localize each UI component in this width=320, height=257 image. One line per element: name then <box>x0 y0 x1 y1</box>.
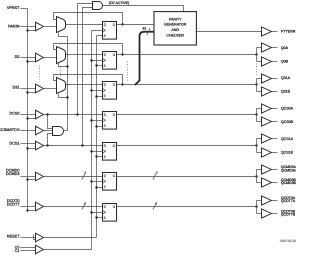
net label VPRST <box>7 6 20 10</box>
svg-text:D0: D0 <box>15 55 20 59</box>
net label DCS0 <box>9 112 19 116</box>
node output split Q31 <box>255 83 257 85</box>
wire FF5 Q to QCS1 outputs <box>117 145 257 147</box>
net label DCDT0 <box>7 199 20 203</box>
node VPRST tap DCS0 <box>26 117 28 119</box>
wire Q0B stub <box>257 61 262 63</box>
wire QCS0A stub <box>257 108 262 110</box>
bus width label 4 (QCMD out) <box>156 171 158 175</box>
node output split QCS0 <box>255 113 257 115</box>
wire RESET input <box>21 237 36 239</box>
wire reset rail vertical <box>96 36 98 238</box>
wire VPRST tap DCS0 <box>28 118 36 120</box>
wire FF6 Q to QCMD outputs <box>117 176 257 178</box>
bus width label 8 (QCDT out) <box>155 201 157 205</box>
node DCS1 junction <box>46 144 48 146</box>
svg-text:C1: C1 <box>15 249 20 253</box>
svg-text:D31: D31 <box>13 86 20 90</box>
svg-text:QCDT7A: QCDT7A <box>281 199 296 203</box>
wire reset stub FF2 <box>97 65 103 67</box>
net label Q31B <box>281 90 291 94</box>
svg-text:32: 32 <box>142 26 146 30</box>
wire VPRST tap DCMD <box>28 179 36 181</box>
output buffer QCDTB <box>262 209 272 218</box>
wire Q0B output <box>272 61 278 63</box>
node DCS1 to CE vertical <box>81 144 83 146</box>
wire RESET to reset rail <box>44 237 97 239</box>
wire output split vertical Q0 <box>256 48 258 62</box>
wire VPRST tap DCDT <box>28 210 36 212</box>
wire dotted continuation register outputs <box>127 62 129 81</box>
svg-text:QCMD3B: QCMD3B <box>281 181 297 185</box>
wire Q31B stub <box>257 91 262 93</box>
node reset junction FF5 <box>95 155 97 157</box>
node reset junction FF2 <box>95 64 97 66</box>
input buffer RESET <box>36 233 44 242</box>
wire select vertical from CS gate <box>67 37 69 131</box>
svg-text:QCMD3A: QCMD3A <box>281 168 297 172</box>
svg-text:RESET: RESET <box>7 235 20 239</box>
wire clock stub FF3 <box>92 90 103 92</box>
wire clock stub FF1 <box>92 30 103 32</box>
net label QCDT7A <box>281 199 296 203</box>
wire reset stub FF4 <box>97 126 103 128</box>
parity generator and checker block <box>154 12 196 45</box>
net label QCMD0B <box>281 178 297 182</box>
bus slash QCDT output <box>153 204 156 210</box>
flip-flop FF7 (DCDT rank) <box>103 204 117 222</box>
wire QCDTB stub <box>257 213 262 215</box>
bus 32-bit data to parity block <box>135 32 154 85</box>
wire mux D0 select hook <box>59 63 68 67</box>
net label PARIN <box>8 25 20 29</box>
wire DCS1 hook to CS AND <box>48 134 53 146</box>
wire clock stub FF6 <box>92 181 103 183</box>
output buffer Q31A <box>262 74 272 83</box>
wire D0 buffer to mux <box>44 57 57 59</box>
svg-text:QCS1B: QCS1B <box>281 150 294 154</box>
mux PARIN <box>57 17 66 33</box>
node VPRST tap DCS1 <box>26 147 28 149</box>
input buffer DCS1 <box>36 141 44 150</box>
wire QCS1A output <box>272 138 278 140</box>
bus slash QCMD output <box>153 174 156 180</box>
node VPRST tap DCDT <box>26 209 28 211</box>
and-gate U2 chip-select decode <box>53 127 64 136</box>
input buffer D0 <box>36 53 44 62</box>
svg-text:DCS0: DCS0 <box>9 112 19 116</box>
bus slash 32-bit <box>147 29 150 35</box>
mux D0 <box>57 47 66 64</box>
wire QCMDB stub <box>257 182 262 184</box>
output buffer QCS1B <box>262 148 272 157</box>
wire VPRST tap D31 <box>28 92 36 94</box>
wire QCMDB output <box>272 182 278 184</box>
wire D0 input <box>21 57 36 59</box>
svg-text:PARITY: PARITY <box>169 17 182 21</box>
svg-text:Q0A: Q0A <box>281 46 289 50</box>
net label QCS1B <box>281 150 294 154</box>
wire Q0A output <box>272 47 278 49</box>
wire dotted continuation input buffers <box>39 66 41 82</box>
wire PARIN buffer to mux <box>44 26 57 28</box>
node feedback junction D31 <box>121 83 123 85</box>
net label Q31A <box>281 76 291 80</box>
wire D31 input <box>21 88 36 90</box>
wire VPRST tap DCS1 <box>28 148 36 150</box>
node clock junction FF6 <box>90 180 92 182</box>
svg-text:Q0B: Q0B <box>281 59 289 63</box>
wire VPRST tap PARIN <box>28 30 36 32</box>
svg-text:DCDT7: DCDT7 <box>7 203 20 207</box>
bus width label 4 (DCMD in) <box>84 171 86 175</box>
net label C1 <box>15 249 20 253</box>
bus slash DCMD input <box>82 174 85 180</box>
wire DCS0 hook to CS AND <box>48 115 53 129</box>
node VPRST tap PARIN <box>26 29 28 31</box>
wire clock stub FF7 <box>92 212 103 214</box>
net label QCS0B <box>281 120 294 124</box>
net label DCDT7 <box>7 203 20 207</box>
wire output split vertical QCS0 <box>256 109 258 122</box>
wire reset stub FF7 <box>97 217 103 219</box>
output buffer QCS0B <box>262 117 272 126</box>
wire QCS0A output <box>272 108 278 110</box>
output buffer QCS1A <box>262 134 272 143</box>
wire C0 input <box>21 247 36 249</box>
wire Q31A stub <box>257 78 262 80</box>
input buffer D31 <box>36 84 44 93</box>
bus width label 32 <box>142 26 146 30</box>
net label RESET <box>7 235 20 239</box>
mux D31 <box>57 78 66 94</box>
bus slash DCDT input <box>82 204 85 210</box>
svg-text:QCDT7B: QCDT7B <box>281 213 296 217</box>
wire mux D0 output to register D <box>66 54 103 56</box>
wire QCDTB output <box>272 213 278 215</box>
net label DCMD0 <box>6 168 20 172</box>
wire reset stub FF6 <box>97 187 103 189</box>
watermark figure number <box>280 239 296 243</box>
wire QCS1B output <box>272 152 278 154</box>
node clock junction FF3 <box>90 89 92 91</box>
node reset junction FF7 <box>95 216 97 218</box>
wire DCDT bus to register FF7 <box>44 206 103 208</box>
input buffer DCDT <box>36 202 44 211</box>
net label QCDT0B <box>281 209 296 213</box>
wire mux PARIN output to register D <box>66 24 103 26</box>
wire output split vertical QCMD <box>256 170 258 183</box>
wire DCMD input <box>21 176 36 178</box>
input buffer DCS0 <box>36 110 44 119</box>
svg-text:QCS0A: QCS0A <box>281 107 294 111</box>
wire RESET lower stub <box>34 235 36 240</box>
wire QCS1A stub <box>257 138 262 140</box>
node clock junction FF7 <box>90 211 92 213</box>
node select junction row D0 <box>66 65 68 67</box>
node clock junction FF5 <box>90 150 92 152</box>
net label Q0A <box>281 46 289 50</box>
svg-text:AND: AND <box>171 28 179 32</box>
wire CCSMATCH to CS AND <box>44 130 53 132</box>
svg-text:CHECKER: CHECKER <box>166 34 184 38</box>
wire clock to clock rail <box>44 249 92 251</box>
node feedback junction D0 <box>121 53 123 55</box>
node reset junction FF3 <box>95 95 97 97</box>
wire clock rail vertical <box>91 31 93 250</box>
node VPRST tap D0 <box>26 60 28 62</box>
bus width label 8 (DCDT in) <box>84 201 86 205</box>
wire reset stub FF1 <box>97 35 103 37</box>
wire QCS0B output <box>272 121 278 123</box>
wire dotted continuation output pairs <box>256 64 258 76</box>
wire QCS1B stub <box>257 152 262 154</box>
output buffer QCMDB <box>262 178 272 187</box>
wire VPRST rail vertical <box>27 9 29 211</box>
net label Q0B <box>281 59 289 63</box>
flip-flop FF3 (D31 rank) <box>103 82 117 100</box>
node output split Q0 <box>255 53 257 55</box>
wire DCS1 to register FF5 <box>44 145 103 147</box>
net label C0 <box>15 245 20 249</box>
node VPRST tap DCMD <box>26 178 28 180</box>
wire CE vertical from DCS1 <box>83 8 93 146</box>
net label DCMD3 <box>6 172 20 176</box>
svg-text:QCS0B: QCS0B <box>281 120 294 124</box>
wire FF7 Q to QCDT outputs <box>117 206 257 208</box>
wire DCS0 to register FF4 <box>44 114 103 116</box>
wire DCS1 input <box>21 143 36 145</box>
svg-text:GENERATOR: GENERATOR <box>164 23 187 27</box>
node VPRST tap D31 <box>26 91 28 93</box>
net label QCS0A <box>281 107 294 111</box>
node feedback junction PARIN <box>121 23 123 25</box>
flip-flop FF2 (D0 rank) <box>103 52 117 70</box>
wire Q31A output <box>272 78 278 80</box>
svg-text:CCSMATCH: CCSMATCH <box>0 128 20 132</box>
wire feedback D31 <box>54 75 123 85</box>
wire feedback D0 <box>54 44 123 55</box>
wire C1 input <box>21 250 36 252</box>
flip-flop FF6 (DCMD rank) <box>103 173 117 191</box>
wire CE active to parity block <box>103 6 184 12</box>
node DCS0 to CE vertical <box>76 113 78 115</box>
input buffer PARIN <box>36 22 44 31</box>
node output split QCDT <box>255 205 257 207</box>
output buffer Q31B <box>262 87 272 96</box>
svg-text:PTYERR: PTYERR <box>281 30 296 34</box>
flip-flop FF5 (DCS1 rank) <box>103 143 117 161</box>
net label QCMD3A <box>281 168 297 172</box>
svg-text:DCMD3: DCMD3 <box>6 172 20 176</box>
wire output split vertical QCS1 <box>256 139 258 153</box>
net label QCS1A <box>281 137 294 141</box>
wire dotted continuation muxes <box>60 68 62 77</box>
output buffer Q0B <box>262 57 272 66</box>
flip-flop FF1 (PARIN rank) <box>103 22 117 40</box>
and-gate U1 chip-enable <box>93 2 103 10</box>
net label CCSMATCH <box>0 128 20 132</box>
wire clock stub FF5 <box>92 151 103 153</box>
svg-text:Q31B: Q31B <box>281 90 291 94</box>
node clock junction FF4 <box>90 119 92 121</box>
wire DCDT input <box>21 206 36 208</box>
output buffer Q0A <box>262 43 272 52</box>
net label QCMD0A <box>281 165 297 169</box>
node reset junction FF4 <box>95 125 97 127</box>
wire output split vertical Q31 <box>256 79 258 92</box>
wire mux D31 select hook <box>59 94 68 98</box>
output buffer QCMDA <box>262 165 272 174</box>
wire Q31B output <box>272 91 278 93</box>
wire clock stub FF4 <box>92 120 103 122</box>
node clock junction FF2 <box>90 59 92 61</box>
wire parity block output to PTYERR buffer <box>197 31 262 33</box>
output buffer PTYERR <box>262 27 272 36</box>
wire mux D31 output to register D <box>66 84 103 86</box>
net label (CE ACTIVE) <box>109 1 130 5</box>
svg-text:09471B-28: 09471B-28 <box>280 239 296 243</box>
wire mux PARIN select hook <box>59 33 68 37</box>
wire FF3 Q to Q31 outputs <box>117 84 257 86</box>
wire clock stub FF2 <box>92 60 103 62</box>
net label D31 <box>13 86 20 90</box>
wire QCMDA output <box>272 169 278 171</box>
node DCS0 junction <box>46 113 48 115</box>
wire DCS0 input <box>21 114 36 116</box>
wire QCMDA stub <box>257 169 262 171</box>
wire FF4 Q to QCS0 outputs <box>117 114 257 116</box>
svg-text:QCS1A: QCS1A <box>281 137 294 141</box>
node select junction row D31 <box>66 96 68 98</box>
net label DCS1 <box>9 141 19 145</box>
svg-text:VPRST: VPRST <box>7 6 20 10</box>
node output split QCMD <box>255 175 257 177</box>
input buffer DCMD <box>36 172 44 181</box>
net label QCDT0A <box>281 196 296 200</box>
net label QCDT7B <box>281 213 296 217</box>
wire DCMD bus to register FF6 <box>44 176 103 178</box>
wire VPRST to rail <box>21 8 28 10</box>
wire CE vertical from DCS0 <box>78 4 93 115</box>
net label PTYERR <box>281 30 296 34</box>
net label QCMD3B <box>281 181 297 185</box>
wire D31 buffer to mux <box>44 88 57 90</box>
svg-text:PARIN: PARIN <box>8 25 20 29</box>
wire FF1 Q to parity block <box>117 24 155 26</box>
wire QCDTA output <box>272 200 278 202</box>
svg-text:DCS1: DCS1 <box>9 141 19 145</box>
node output split QCS1 <box>255 144 257 146</box>
wire QCDTA stub <box>257 200 262 202</box>
wire CS AND output to select vertical <box>64 130 68 132</box>
net label D0 <box>15 55 20 59</box>
wire reset stub FF5 <box>97 156 103 158</box>
wire reset stub FF3 <box>97 96 103 98</box>
output buffer QCS0A <box>262 104 272 113</box>
wire PARIN input <box>21 26 36 28</box>
input buffer C0 C1 clock <box>36 245 44 254</box>
wire QCS0B stub <box>257 121 262 123</box>
wire FF2 Q to Q0 outputs <box>117 54 257 56</box>
wire output split vertical QCDT <box>256 201 258 214</box>
node reset junction FF6 <box>95 186 97 188</box>
output buffer QCDTA <box>262 196 272 205</box>
wire PTYERR output stub <box>272 31 278 33</box>
wire feedback PARIN <box>54 13 123 25</box>
svg-text:(CE ACTIVE): (CE ACTIVE) <box>109 1 130 5</box>
wire Q0A stub <box>257 47 262 49</box>
wire VPRST tap D0 <box>28 61 36 63</box>
input buffer CCSMATCH <box>36 126 44 135</box>
svg-text:Q31A: Q31A <box>281 76 291 80</box>
wire CCSMATCH input <box>21 130 36 132</box>
flip-flop FF4 (DCS0 rank) <box>103 112 117 130</box>
